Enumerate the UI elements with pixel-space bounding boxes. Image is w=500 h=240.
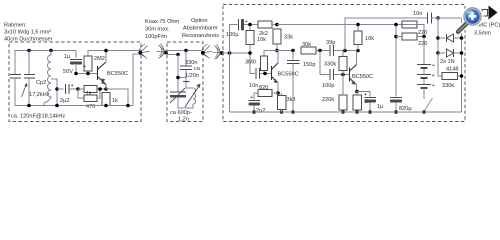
wire 2M2 top xyxy=(88,51,140,57)
wire emitter Q2 down xyxy=(277,83,279,94)
wire 330k load left xyxy=(438,53,442,76)
node rail switch xyxy=(422,110,426,114)
arrow Cp2 tuning xyxy=(22,83,28,97)
svg-text:BC550C: BC550C xyxy=(352,74,373,80)
capacitor 10n xyxy=(256,68,260,79)
svg-text:Resonanzkreis: Resonanzkreis xyxy=(182,33,219,39)
capacitor 39p xyxy=(330,45,334,56)
svg-text:+: + xyxy=(83,64,86,70)
diode D2 xyxy=(438,49,462,57)
wire option center line xyxy=(167,50,201,52)
svg-text:+: + xyxy=(432,73,435,79)
node rail 2u2 xyxy=(252,110,256,114)
wire 33k bottom xyxy=(276,44,278,51)
wire 39p right xyxy=(334,50,359,52)
svg-text:1k: 1k xyxy=(112,98,118,104)
svg-text:40cm Durchmesser: 40cm Durchmesser xyxy=(4,37,53,43)
wire 10n to base xyxy=(260,73,272,75)
wire 330n bottom xyxy=(178,70,186,78)
wire 330k load right xyxy=(458,75,462,77)
wire 1u to base xyxy=(76,65,97,74)
node option center xyxy=(184,49,188,53)
arrow emitter Q1 xyxy=(101,80,106,84)
wire trimmer left xyxy=(78,88,84,90)
svg-text:+: + xyxy=(364,92,367,98)
resistor 220k xyxy=(339,95,347,110)
wire output line node xyxy=(436,16,440,20)
wire ground drop xyxy=(229,53,231,112)
wire 3M0 bottom xyxy=(263,71,265,74)
wire option shield line xyxy=(166,54,178,56)
capacitor 330n xyxy=(180,66,192,70)
magnifier zoom icon xyxy=(458,6,484,33)
svg-text:33k: 33k xyxy=(284,35,293,41)
node battery top xyxy=(422,35,426,39)
svg-text:4148: 4148 xyxy=(446,67,458,73)
wire 220 upper right xyxy=(417,25,424,37)
wire Cp2 bottom xyxy=(28,78,30,106)
capacitor 100u xyxy=(239,19,245,31)
svg-text:BC550C: BC550C xyxy=(278,72,299,78)
svg-text:330k: 330k xyxy=(324,62,336,68)
wire 220 lower right xyxy=(417,36,424,38)
node collector Q2 xyxy=(275,49,279,53)
node feedback left xyxy=(76,87,80,91)
svg-text:470: 470 xyxy=(86,104,95,110)
wire 100u feed xyxy=(230,25,238,54)
resistor 220 upper xyxy=(402,21,417,28)
node 1u junction xyxy=(74,72,78,76)
svg-text:2x 1N: 2x 1N xyxy=(440,59,455,65)
coax connector B xyxy=(157,44,168,59)
transistor Q1 BC550C xyxy=(98,62,107,84)
node rail emitter return xyxy=(126,104,130,108)
svg-text:3,5mm: 3,5mm xyxy=(474,31,491,37)
resistor 1k emitter Q1 xyxy=(102,93,110,106)
wire 100u to 2k2 xyxy=(244,24,258,26)
wire 10k q3 top xyxy=(357,25,359,32)
svg-text:ca. 120nF@18,14kHz: ca. 120nF@18,14kHz xyxy=(11,114,65,120)
node rail supply drop xyxy=(394,23,398,27)
wire 100p branch xyxy=(320,51,329,75)
arrow trimmer wiper xyxy=(101,78,106,86)
svg-text:100p: 100p xyxy=(322,83,334,89)
wire right column xyxy=(230,18,462,112)
wire 220k bottom xyxy=(342,110,344,112)
svg-text:3k3: 3k3 xyxy=(287,97,296,103)
resistor 1k emitter Q3 xyxy=(353,95,362,110)
trimmer tick xyxy=(183,81,190,83)
node ground drop xyxy=(228,51,232,55)
wire 2k2 to rail xyxy=(272,24,277,26)
node base Q2 xyxy=(263,72,267,76)
node diode left bottom xyxy=(436,51,440,55)
svg-text:2M2: 2M2 xyxy=(94,56,105,62)
wire 10n out to corner xyxy=(432,17,462,19)
capacitor 1u 50V xyxy=(70,60,82,65)
wire supply rail xyxy=(277,24,424,26)
svg-text:220: 220 xyxy=(418,41,427,47)
node right col d2 xyxy=(460,51,464,55)
wire 2M2 bottom xyxy=(87,71,89,74)
resistor 3k3 xyxy=(278,96,287,110)
node rail 3k3 xyxy=(280,110,284,114)
wire 220 lower left xyxy=(396,36,402,38)
svg-text:220k: 220k xyxy=(322,97,334,103)
main unit dashed enclosure xyxy=(223,5,465,122)
resistor 2k2 xyxy=(258,21,272,28)
svg-text:3x10 Wdg 1,5 mm²: 3x10 Wdg 1,5 mm² xyxy=(4,30,51,36)
wire emitter Q3 down xyxy=(356,84,358,92)
arrow variable inductor xyxy=(185,84,201,108)
wire 1u bottom xyxy=(369,103,371,113)
wire coax shield riser xyxy=(133,54,140,106)
svg-text:330k: 330k xyxy=(442,83,454,89)
wire shield branch xyxy=(177,55,179,92)
arrow variable cap xyxy=(170,88,185,103)
node rail 820u xyxy=(394,110,398,114)
wire collector Q1 xyxy=(105,51,107,63)
inductor L1 frame coil xyxy=(44,51,51,106)
capacitor 10n output xyxy=(428,13,432,24)
wire emitter return xyxy=(106,89,128,106)
node rail 33k xyxy=(275,23,279,27)
resistor 33k xyxy=(273,29,281,44)
node rail 1u xyxy=(368,110,372,114)
node rail 1k xyxy=(104,104,108,108)
resistor 30k xyxy=(301,47,316,54)
wire 1k q3 top xyxy=(356,92,358,96)
wire 1u q3 branch xyxy=(357,92,370,97)
svg-text:BC550C: BC550C xyxy=(107,71,128,77)
wire output riser xyxy=(345,18,427,51)
node diode left top xyxy=(436,36,440,40)
wire 820 right xyxy=(272,92,278,94)
wire 470 right up xyxy=(97,89,100,98)
wire 330n top xyxy=(185,51,187,66)
inductor variable xyxy=(193,88,196,104)
node tank top xyxy=(176,76,180,80)
svg-text:Koax 75 Ohm: Koax 75 Ohm xyxy=(145,19,180,25)
wire coil top link xyxy=(186,78,193,89)
plug 3,5mm jack xyxy=(482,6,498,20)
battery 3 cells xyxy=(417,65,431,89)
svg-text:Option: Option xyxy=(191,18,207,24)
svg-text:ca: ca xyxy=(194,66,201,72)
resistor 2M2 xyxy=(84,56,92,71)
resistor 330k bias xyxy=(339,57,347,71)
wire C2 to node xyxy=(69,88,78,90)
capacitor 2u2 feedback xyxy=(66,84,70,94)
node coil tap junction xyxy=(55,87,59,91)
node option shield xyxy=(176,53,180,57)
node collector Q3 xyxy=(356,49,360,53)
wire coupling cap top xyxy=(75,51,77,59)
capacitor 820u xyxy=(390,98,402,103)
wire 150p top xyxy=(292,51,294,61)
capacitor 1u emitter xyxy=(365,98,377,103)
svg-text:100pF/m: 100pF/m xyxy=(145,34,167,40)
node rail tap xyxy=(55,104,59,108)
svg-text:10k: 10k xyxy=(365,36,374,42)
node emitter Q2 xyxy=(276,91,280,95)
transistor Q2 BC550C xyxy=(272,63,279,83)
wire tank bottom xyxy=(178,98,193,109)
svg-text:220: 220 xyxy=(418,30,427,36)
wire ground rail antenna box xyxy=(44,105,133,107)
svg-text:1k: 1k xyxy=(86,91,92,97)
resistor 220 lower xyxy=(402,33,417,40)
node trimmer right xyxy=(98,87,102,91)
svg-text:10n: 10n xyxy=(249,83,258,89)
wire 10k to line xyxy=(249,27,251,31)
wire diode column left xyxy=(437,18,439,76)
node output top xyxy=(343,49,347,53)
svg-text:2µ2: 2µ2 xyxy=(60,98,69,104)
capacitor Cp2 xyxy=(24,75,35,79)
wire top of tank xyxy=(15,51,76,75)
wire 330k bottom xyxy=(342,71,344,75)
resistor 330k load xyxy=(442,73,458,80)
svg-text:17,2kHz: 17,2kHz xyxy=(29,92,50,98)
node tank top Cp2 xyxy=(27,49,31,53)
capacitor variable tank xyxy=(170,92,186,98)
node collector Q1 xyxy=(104,49,108,53)
resistor 1k trimmer xyxy=(84,86,97,93)
wire 330k top xyxy=(342,51,344,57)
wire 10n input xyxy=(250,73,255,75)
wire trimmer right xyxy=(97,88,106,90)
capacitor 2u2 emitter xyxy=(249,101,261,106)
wire 3k3 bottom xyxy=(281,110,283,113)
switch power xyxy=(424,98,433,112)
svg-text:1µ: 1µ xyxy=(377,104,384,110)
svg-text:+: + xyxy=(71,83,74,89)
option dashed enclosure xyxy=(167,42,203,122)
node emitter Q1 xyxy=(104,87,108,91)
wire emitter Q1 down xyxy=(105,84,107,90)
wire Cp2 top xyxy=(28,51,30,75)
node collector net 150p xyxy=(291,49,295,53)
svg-text:820: 820 xyxy=(259,85,268,91)
diode D1 xyxy=(438,34,462,42)
svg-text:Rahmen:: Rahmen: xyxy=(4,23,27,29)
wire 10k q3 bottom xyxy=(357,45,359,51)
wire tap to C2 xyxy=(57,88,64,90)
wire down to 470 xyxy=(78,89,84,98)
svg-text:820µ: 820µ xyxy=(399,106,412,112)
antenna unit dashed enclosure xyxy=(9,42,141,122)
svg-text:+: + xyxy=(432,63,435,69)
node rail 220k xyxy=(341,110,345,114)
wire 1k q3 bottom xyxy=(356,110,358,112)
wire battery feed xyxy=(423,37,425,65)
capacitor 100p xyxy=(330,69,334,80)
wire collector Q2 up xyxy=(277,51,279,64)
svg-text:Abstimmbarer: Abstimmbarer xyxy=(183,26,218,32)
wire collector Q3 up xyxy=(356,51,358,65)
svg-text:100µ: 100µ xyxy=(226,32,239,38)
arrow emitter Q3 xyxy=(351,81,356,85)
wire supply drop 820u xyxy=(395,25,397,97)
node rail Cp2 xyxy=(27,104,31,108)
node 220 left xyxy=(394,35,398,39)
svg-text:10k: 10k xyxy=(257,37,266,43)
node 100u 10k xyxy=(248,23,252,27)
wire 820 left xyxy=(254,93,258,100)
capacitor C1 xyxy=(10,75,21,79)
node tank top coil xyxy=(49,49,53,53)
resistor 470 xyxy=(84,95,97,102)
resistor 820 xyxy=(258,90,272,97)
node rail 1k q3 xyxy=(355,110,359,114)
resistor 3M0 xyxy=(261,56,268,71)
svg-text:39p: 39p xyxy=(326,40,335,46)
wire 100p to base xyxy=(334,74,350,76)
svg-text:1/20n: 1/20n xyxy=(185,73,199,79)
wire collector net Q2 xyxy=(264,51,293,57)
wire 30k to 39p xyxy=(316,50,329,52)
wire 3k3 top xyxy=(281,93,283,96)
svg-text:30m max.: 30m max. xyxy=(145,27,170,33)
wire 10k bottom xyxy=(249,45,251,74)
svg-text:10n: 10n xyxy=(413,11,422,17)
coax connector D xyxy=(201,44,212,59)
wire 820u bottom xyxy=(395,103,397,113)
node 39p left xyxy=(318,49,322,53)
svg-text:50V: 50V xyxy=(63,69,73,75)
arrow emitter Q2 xyxy=(273,79,278,83)
node right col d1 xyxy=(460,36,464,40)
svg-text:+: + xyxy=(432,83,435,89)
svg-text:1,2n: 1,2n xyxy=(178,117,189,123)
wire 220k top xyxy=(342,75,344,96)
resistor 10k collector Q3 xyxy=(354,31,362,45)
svg-text:3M0: 3M0 xyxy=(245,60,256,66)
node base Q3 xyxy=(341,73,345,77)
wire battery bottom xyxy=(423,88,425,99)
capacitor 150p xyxy=(287,61,300,64)
node right col 330k xyxy=(460,74,464,78)
svg-text:2µ2: 2µ2 xyxy=(256,108,265,114)
wire 150p bottom xyxy=(292,64,294,113)
wire coax to main xyxy=(222,52,250,54)
coax connector A xyxy=(138,44,149,59)
svg-text:2k2: 2k2 xyxy=(259,31,268,37)
node rail 150p xyxy=(291,110,295,114)
wire coil tap xyxy=(51,79,57,106)
svg-text:150p: 150p xyxy=(303,62,315,68)
resistor 10k input xyxy=(246,31,254,45)
node rail 10k q3 xyxy=(356,23,360,27)
svg-text:1µ: 1µ xyxy=(64,54,71,60)
node emitter Q3 xyxy=(355,90,359,94)
node signal line xyxy=(248,51,252,55)
transistor Q3 BC550C xyxy=(350,65,357,85)
svg-text:30k: 30k xyxy=(302,42,311,48)
wire 2u2 bottom xyxy=(253,106,255,113)
wire C1 bottom xyxy=(15,78,44,106)
svg-text:ca 600p-: ca 600p- xyxy=(170,110,192,116)
node base Q1 xyxy=(86,72,90,76)
svg-text:+: + xyxy=(250,95,253,101)
svg-text:Cp2: Cp2 xyxy=(36,80,46,86)
coax connector C xyxy=(213,45,224,60)
